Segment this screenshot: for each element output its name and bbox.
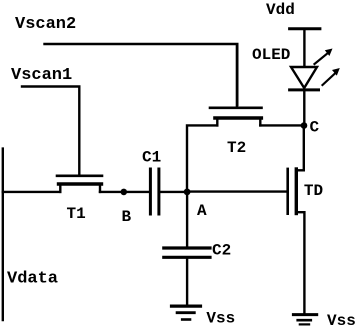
ground symbol left (Vss) [172, 306, 201, 319]
power rail Vdd bar [290, 27, 320, 30]
svg-text:Vss: Vss [327, 312, 356, 327]
TD drain step [297, 169, 304, 171]
svg-text:C1: C1 [142, 149, 161, 167]
svg-text:B: B [122, 208, 132, 226]
TD source step [297, 211, 304, 213]
C2 top plate [164, 246, 210, 249]
wire C2 to left ground [186, 259, 188, 305]
wire T2 drain to node C [260, 124, 304, 126]
transistor T2 [210, 45, 262, 125]
svg-text:A: A [197, 202, 207, 220]
svg-text:Vscan2: Vscan2 [15, 15, 76, 34]
svg-text:Vscan1: Vscan1 [11, 66, 72, 85]
transistor T1 [57, 176, 102, 192]
wire T1 drain to node B and C1 [100, 191, 150, 193]
wire node A to C2 [186, 192, 188, 247]
wire Vdata to T1 source [3, 191, 61, 193]
C2 bottom plate [164, 256, 210, 259]
OLED cathode bar [290, 88, 319, 91]
T2 drain leg [259, 119, 261, 126]
C1 left plate [149, 169, 152, 214]
data line rail Vdata [2, 149, 4, 320]
svg-text:C: C [310, 119, 320, 137]
T2 gate lead [236, 45, 238, 106]
svg-text:Vdd: Vdd [266, 1, 295, 19]
capacitor C2 [164, 248, 210, 257]
OLED light arrow 1 [315, 49, 333, 65]
T1 channel bar [59, 182, 102, 185]
node A junction dot [184, 189, 191, 196]
svg-text:T2: T2 [227, 139, 246, 157]
svg-text:Vss: Vss [206, 309, 235, 327]
wire OLED cathode to node C [303, 91, 305, 126]
wire node C to TD drain [303, 126, 305, 171]
wire TD source to right ground [303, 212, 305, 313]
T2 source leg [216, 119, 218, 126]
T1 drain leg [99, 185, 101, 192]
svg-text:OLED: OLED [252, 46, 290, 64]
T2 gate bar [210, 107, 262, 110]
OLED diode triangle [291, 67, 317, 88]
transistor TD [288, 169, 305, 214]
wire node A to TD gate [187, 190, 288, 192]
TD channel bar [295, 169, 298, 214]
wire C1 to node A [160, 191, 187, 193]
TD gate bar [286, 169, 289, 214]
svg-text:Vdata: Vdata [7, 270, 58, 289]
T1 source leg [59, 185, 61, 192]
wire Vdd to OLED anode [303, 30, 305, 66]
ground symbol right (Vss) [293, 315, 316, 325]
C1 right plate [157, 169, 160, 214]
wire Vscan2 to T2 gate [45, 44, 238, 105]
T2 channel bar [215, 116, 261, 120]
svg-text:TD: TD [304, 182, 323, 200]
svg-text:C2: C2 [212, 242, 231, 260]
capacitor C1 [150, 169, 159, 214]
node C junction dot [301, 122, 308, 129]
T1 gate bar [57, 175, 102, 178]
node B junction dot [121, 189, 128, 196]
wire T2 source down-left to node A [187, 125, 217, 191]
wire Vscan1 to T1 gate [22, 87, 79, 176]
svg-text:T1: T1 [67, 205, 86, 223]
OLED light arrow 2 [323, 68, 340, 85]
